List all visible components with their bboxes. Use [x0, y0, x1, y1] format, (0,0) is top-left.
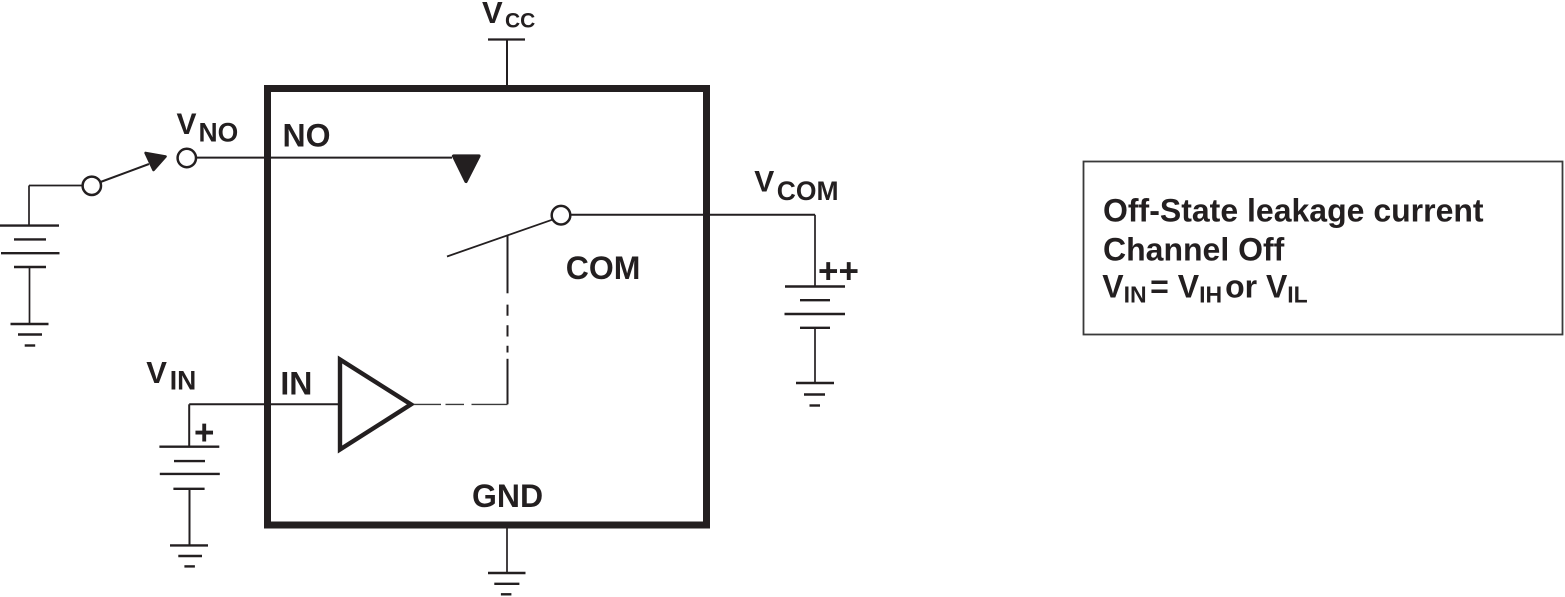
svg-text:V: V [146, 355, 167, 390]
svg-text:IN: IN [170, 366, 197, 396]
svg-text:COM: COM [566, 250, 641, 286]
svg-text:COM: COM [777, 176, 839, 206]
svg-text:V: V [177, 108, 197, 141]
svg-text:V: V [754, 166, 774, 199]
svg-text:IN: IN [280, 365, 312, 401]
svg-text:CC: CC [505, 10, 535, 33]
svg-text:NO: NO [199, 118, 239, 148]
svg-text:V: V [482, 0, 503, 30]
svg-text:GND: GND [472, 478, 543, 514]
svg-text:NO: NO [283, 118, 331, 154]
svg-text:Off-State leakage current: Off-State leakage current [1103, 192, 1484, 228]
svg-text:Channel Off: Channel Off [1103, 232, 1285, 268]
svg-text:++: ++ [818, 252, 859, 291]
